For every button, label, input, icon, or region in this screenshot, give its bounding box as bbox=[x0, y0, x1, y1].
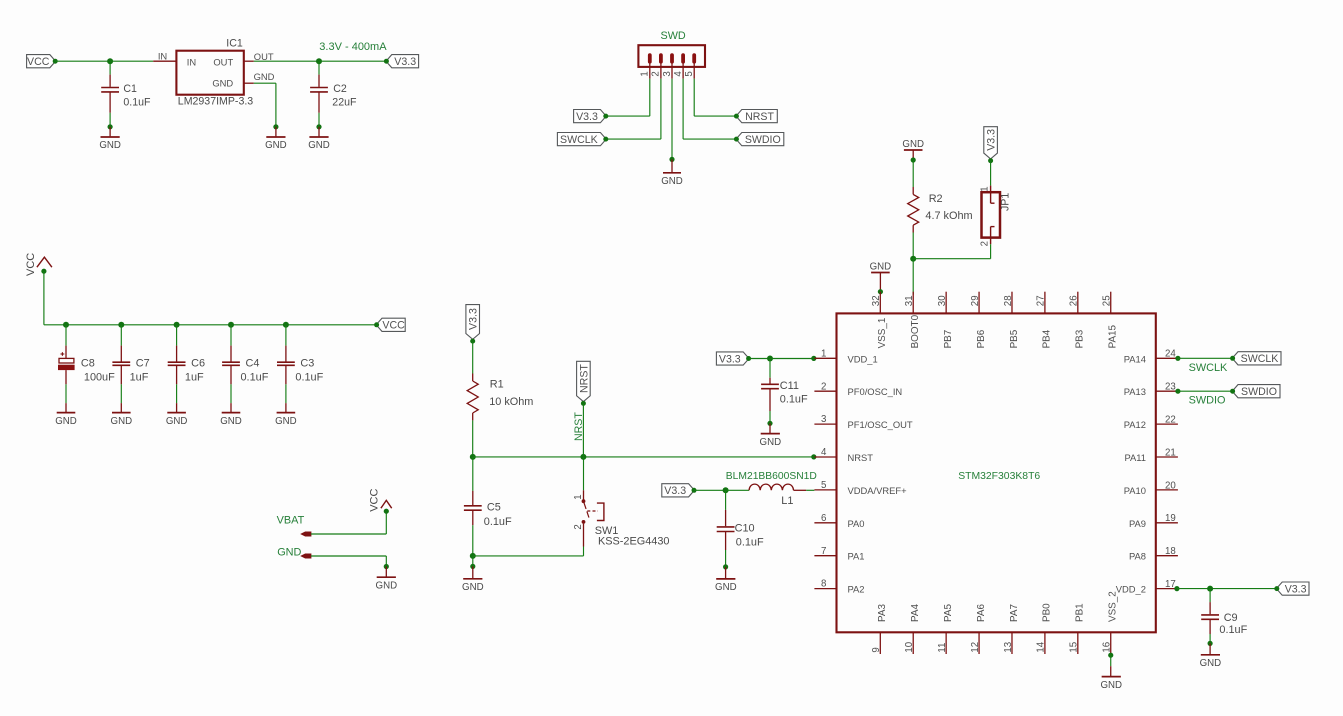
svg-text:32: 32 bbox=[871, 295, 882, 306]
svg-text:GND: GND bbox=[212, 77, 233, 88]
wire bbox=[749, 358, 770, 360]
svg-text:OUT: OUT bbox=[254, 51, 274, 62]
net flag V3.3 bbox=[1274, 582, 1309, 595]
wire bbox=[110, 60, 153, 62]
svg-text:16: 16 bbox=[1102, 642, 1113, 653]
wire pin2 to SWCLK bbox=[660, 64, 662, 79]
svg-text:VBAT: VBAT bbox=[277, 515, 305, 527]
svg-text:21: 21 bbox=[1165, 447, 1176, 458]
svg-text:31: 31 bbox=[904, 295, 915, 306]
svg-text:10 kOhm: 10 kOhm bbox=[489, 396, 533, 408]
wire VDD_2 to V3.3 bbox=[1177, 588, 1277, 590]
junction bbox=[108, 124, 113, 129]
capacitor C1 bbox=[101, 61, 151, 113]
wire SWCLK bbox=[1178, 357, 1232, 359]
pin 1 VDD_1 bbox=[814, 348, 877, 364]
svg-text:PF0/OSC_IN: PF0/OSC_IN bbox=[848, 386, 903, 397]
ground bbox=[760, 423, 782, 448]
svg-text:3: 3 bbox=[662, 71, 673, 76]
svg-text:23: 23 bbox=[1165, 382, 1176, 393]
svg-text:PA4: PA4 bbox=[910, 604, 921, 622]
svg-text:VCC: VCC bbox=[369, 489, 381, 512]
svg-text:R1: R1 bbox=[490, 379, 504, 391]
pin 27 PB4 bbox=[1036, 292, 1053, 349]
ground bbox=[715, 567, 737, 593]
svg-text:C10: C10 bbox=[735, 523, 755, 535]
ground bbox=[1100, 666, 1122, 691]
junction bbox=[174, 322, 180, 328]
svg-text:SWCLK: SWCLK bbox=[560, 134, 598, 146]
resistor R1 10 kOhm bbox=[467, 374, 533, 421]
pin 32 VSS_1 bbox=[871, 292, 888, 349]
svg-text:PA10: PA10 bbox=[1124, 485, 1146, 496]
ground bbox=[220, 403, 242, 427]
svg-text:PB3: PB3 bbox=[1075, 329, 1086, 348]
svg-text:PB7: PB7 bbox=[943, 330, 954, 349]
svg-text:PF1/OSC_OUT: PF1/OSC_OUT bbox=[848, 419, 913, 430]
capacitor C9 bbox=[1201, 589, 1247, 636]
junction bbox=[910, 256, 916, 262]
svg-text:GND: GND bbox=[166, 416, 188, 427]
connector SWD bbox=[638, 30, 705, 67]
svg-text:22uF: 22uF bbox=[332, 97, 357, 109]
svg-text:GND: GND bbox=[55, 416, 77, 427]
svg-text:2: 2 bbox=[821, 381, 826, 392]
pin numbers 1-5 bbox=[640, 71, 695, 77]
pin 23 PA13 bbox=[1124, 382, 1178, 398]
svg-text:15: 15 bbox=[1069, 642, 1080, 653]
svg-text:7: 7 bbox=[821, 546, 826, 557]
svg-text:OUT: OUT bbox=[213, 56, 233, 67]
pin 11 PA5 bbox=[937, 604, 954, 654]
svg-text:PB5: PB5 bbox=[1009, 329, 1020, 348]
svg-text:9: 9 bbox=[871, 647, 882, 652]
switch SW1 KSS-2EG4430 bbox=[573, 457, 670, 556]
svg-text:C8: C8 bbox=[81, 357, 95, 369]
ground bbox=[265, 127, 287, 151]
svg-text:GND: GND bbox=[661, 176, 683, 187]
wire bbox=[230, 384, 232, 403]
svg-text:4.7 kOhm: 4.7 kOhm bbox=[925, 210, 972, 222]
svg-text:13: 13 bbox=[1003, 642, 1014, 653]
junction bbox=[316, 124, 321, 129]
pin 10 PA4 bbox=[904, 604, 921, 654]
jumper JP1 bbox=[979, 186, 1011, 247]
svg-text:GND: GND bbox=[254, 71, 275, 82]
svg-text:VDD_2: VDD_2 bbox=[1116, 584, 1146, 595]
junction bbox=[767, 356, 773, 362]
svg-text:PB0: PB0 bbox=[1042, 603, 1053, 622]
pad VBAT bbox=[300, 532, 311, 537]
svg-text:6: 6 bbox=[821, 513, 826, 524]
svg-text:VSS_1: VSS_1 bbox=[877, 317, 888, 348]
junction bbox=[1207, 586, 1213, 592]
junction bbox=[470, 454, 476, 460]
capacitor C4 bbox=[222, 325, 269, 385]
wire pin4 to SWDIO bbox=[682, 64, 684, 79]
wire VSS_2 to GND bbox=[1108, 653, 1113, 658]
svg-text:1: 1 bbox=[640, 71, 651, 76]
wire bbox=[472, 556, 474, 567]
wire bbox=[990, 244, 992, 259]
net flag SWDIO bbox=[734, 133, 784, 146]
svg-text:PA13: PA13 bbox=[1124, 386, 1146, 397]
junction bbox=[470, 564, 475, 569]
svg-text:0.1uF: 0.1uF bbox=[241, 372, 269, 384]
junction bbox=[63, 322, 69, 328]
svg-text:GND: GND bbox=[870, 261, 892, 272]
svg-text:3: 3 bbox=[821, 414, 826, 425]
net flag V3.3 bbox=[716, 352, 751, 365]
svg-text:GND: GND bbox=[462, 582, 484, 593]
junction bbox=[283, 322, 289, 328]
svg-text:V3.3: V3.3 bbox=[1285, 583, 1307, 595]
wire bbox=[311, 533, 386, 535]
svg-text:12: 12 bbox=[970, 642, 981, 653]
pin 4 NRST bbox=[814, 447, 873, 463]
wire NRST net bbox=[473, 456, 815, 458]
svg-text:19: 19 bbox=[1165, 513, 1176, 524]
net flag SWCLK bbox=[1230, 352, 1281, 365]
ground bbox=[661, 159, 683, 187]
microcontroller IC STM32F303K8T6 bbox=[837, 313, 1156, 632]
svg-text:0.1uF: 0.1uF bbox=[295, 372, 323, 384]
junction bbox=[1208, 641, 1213, 646]
svg-text:IN: IN bbox=[158, 51, 167, 62]
svg-text:30: 30 bbox=[937, 295, 948, 306]
svg-text:20: 20 bbox=[1165, 480, 1176, 491]
svg-text:PA1: PA1 bbox=[848, 551, 865, 562]
junction bbox=[878, 289, 883, 294]
junction bbox=[316, 58, 322, 64]
svg-text:SWCLK: SWCLK bbox=[1241, 353, 1279, 365]
wire bbox=[694, 489, 725, 491]
ground bbox=[376, 567, 398, 592]
svg-text:100uF: 100uF bbox=[84, 372, 115, 384]
junction bbox=[911, 157, 916, 162]
svg-text:SWDIO: SWDIO bbox=[1241, 386, 1277, 398]
wire bbox=[769, 411, 771, 423]
wire bbox=[1209, 634, 1211, 643]
junction bbox=[767, 421, 772, 426]
svg-text:24: 24 bbox=[1165, 349, 1176, 360]
junction bbox=[669, 157, 674, 162]
svg-text:GND: GND bbox=[902, 139, 924, 150]
pin 28 PB5 bbox=[1003, 292, 1020, 349]
svg-text:1: 1 bbox=[573, 494, 584, 499]
svg-text:4: 4 bbox=[821, 447, 827, 458]
supply VCC bbox=[25, 253, 52, 276]
pin 6 PA0 bbox=[814, 513, 864, 529]
junction bbox=[723, 487, 729, 493]
junction bbox=[118, 322, 124, 328]
junction bbox=[1175, 389, 1180, 394]
svg-text:VCC: VCC bbox=[382, 320, 405, 332]
svg-text:LM2937IMP-3.3: LM2937IMP-3.3 bbox=[178, 95, 253, 107]
voltage regulator IC1 LM2937IMP-3.3 bbox=[153, 38, 274, 108]
wire bbox=[912, 160, 914, 187]
svg-text:0.1uF: 0.1uF bbox=[484, 516, 512, 528]
wire bbox=[472, 420, 474, 457]
junction bbox=[1174, 586, 1179, 591]
wire bbox=[176, 384, 178, 403]
svg-text:VDD_1: VDD_1 bbox=[848, 353, 878, 364]
wire VCC rail bbox=[43, 271, 45, 325]
svg-text:1uF: 1uF bbox=[185, 372, 204, 384]
svg-text:R2: R2 bbox=[929, 193, 943, 205]
net flag SWDIO bbox=[1230, 385, 1280, 398]
svg-text:V3.3: V3.3 bbox=[394, 56, 416, 68]
svg-text:C2: C2 bbox=[333, 83, 347, 95]
svg-text:PA14: PA14 bbox=[1124, 353, 1146, 364]
pin 26 PB3 bbox=[1069, 292, 1086, 349]
svg-text:KSS-2EG4430: KSS-2EG4430 bbox=[598, 535, 669, 547]
svg-text:IC1: IC1 bbox=[226, 38, 243, 50]
svg-text:PA9: PA9 bbox=[1129, 518, 1146, 529]
svg-text:GND: GND bbox=[760, 437, 782, 448]
svg-text:0.1uF: 0.1uF bbox=[1219, 624, 1247, 636]
svg-text:C6: C6 bbox=[191, 357, 205, 369]
svg-text:PA3: PA3 bbox=[877, 604, 888, 622]
ground bbox=[111, 403, 133, 427]
svg-text:26: 26 bbox=[1069, 295, 1080, 306]
pin 3 PF1/OSC_OUT bbox=[814, 414, 912, 430]
net flag VCC bbox=[27, 55, 58, 68]
pin 9 PA3 bbox=[871, 604, 888, 654]
svg-text:25: 25 bbox=[1102, 295, 1113, 306]
svg-text:C9: C9 bbox=[1224, 612, 1238, 624]
svg-text:PA2: PA2 bbox=[848, 584, 865, 595]
svg-text:V3.3: V3.3 bbox=[576, 111, 598, 123]
svg-text:3.3V - 400mA: 3.3V - 400mA bbox=[319, 41, 387, 53]
pin 14 PB0 bbox=[1036, 603, 1053, 654]
ground bbox=[166, 403, 188, 427]
pin 30 PB7 bbox=[937, 292, 954, 349]
capacitor C10 bbox=[717, 490, 764, 550]
svg-text:14: 14 bbox=[1036, 641, 1047, 652]
ground (above R2) bbox=[902, 139, 924, 158]
wire bbox=[725, 550, 727, 567]
svg-text:PA11: PA11 bbox=[1124, 452, 1146, 463]
pin 12 PA6 bbox=[970, 604, 987, 654]
ground (pin 32) bbox=[870, 261, 892, 290]
wire bbox=[472, 525, 474, 556]
svg-text:PB1: PB1 bbox=[1075, 603, 1086, 622]
svg-text:11: 11 bbox=[937, 643, 948, 653]
svg-text:VCC: VCC bbox=[25, 253, 37, 276]
junction bbox=[273, 124, 278, 129]
svg-text:IN: IN bbox=[187, 56, 196, 67]
wire bbox=[120, 384, 122, 403]
net flag SWCLK bbox=[557, 133, 608, 146]
wire bbox=[56, 60, 111, 62]
net flag V3.3 (vertical) bbox=[984, 127, 998, 164]
svg-text:VDDA/VREF+: VDDA/VREF+ bbox=[848, 485, 908, 496]
wire bbox=[254, 82, 276, 84]
pin 19 PA9 bbox=[1129, 513, 1178, 529]
svg-text:5: 5 bbox=[684, 71, 695, 76]
wire bbox=[472, 342, 474, 374]
svg-text:V3.3: V3.3 bbox=[719, 353, 741, 365]
ground bbox=[308, 127, 330, 151]
wire bbox=[318, 113, 320, 127]
svg-text:4: 4 bbox=[673, 71, 684, 77]
svg-text:10: 10 bbox=[904, 641, 915, 652]
svg-text:L1: L1 bbox=[781, 495, 793, 507]
svg-text:GND: GND bbox=[99, 140, 121, 151]
svg-text:0.1uF: 0.1uF bbox=[123, 97, 151, 109]
junction bbox=[107, 58, 113, 64]
wire pin5 to NRST bbox=[693, 64, 695, 79]
svg-text:VSS_2: VSS_2 bbox=[1108, 591, 1119, 622]
net flag NRST bbox=[734, 110, 777, 123]
svg-text:GND: GND bbox=[220, 416, 242, 427]
svg-text:PA7: PA7 bbox=[1009, 604, 1020, 622]
svg-text:C11: C11 bbox=[780, 380, 799, 392]
pin 5 VDDA/VREF+ bbox=[814, 480, 907, 496]
wire bbox=[912, 259, 914, 295]
svg-text:JP1: JP1 bbox=[1000, 193, 1012, 211]
ground bbox=[275, 403, 297, 427]
svg-text:GND: GND bbox=[275, 416, 297, 427]
pin 17 VDD_2 bbox=[1116, 579, 1178, 595]
pin 18 PA8 bbox=[1129, 546, 1178, 562]
ground bbox=[462, 566, 484, 593]
capacitor C3 bbox=[277, 325, 324, 385]
wire bbox=[582, 404, 584, 457]
capacitor C6 bbox=[168, 325, 205, 385]
svg-text:2: 2 bbox=[979, 241, 990, 246]
svg-text:0.1uF: 0.1uF bbox=[736, 537, 764, 549]
pin 29 PB6 bbox=[970, 292, 987, 349]
svg-text:C5: C5 bbox=[487, 501, 501, 513]
svg-text:22: 22 bbox=[1165, 415, 1176, 426]
net flag V3.3 bbox=[574, 110, 609, 123]
svg-text:C3: C3 bbox=[300, 357, 314, 369]
pin 16 VSS_2 bbox=[1102, 591, 1119, 654]
svg-text:GND: GND bbox=[1200, 658, 1222, 669]
pin 31 BOOT0 bbox=[904, 292, 921, 349]
pin 24 PA14 bbox=[1124, 349, 1178, 365]
junction bbox=[723, 564, 728, 569]
svg-text:C7: C7 bbox=[136, 357, 150, 369]
wire bbox=[109, 113, 111, 127]
svg-text:GND: GND bbox=[308, 140, 330, 151]
svg-text:29: 29 bbox=[970, 295, 981, 306]
ground bbox=[99, 127, 121, 151]
svg-text:28: 28 bbox=[1003, 295, 1014, 306]
svg-text:NRST: NRST bbox=[848, 452, 874, 463]
svg-text:PB6: PB6 bbox=[976, 329, 987, 348]
junction bbox=[228, 322, 234, 328]
svg-text:BLM21BB600SN1D: BLM21BB600SN1D bbox=[726, 471, 817, 482]
svg-text:PA6: PA6 bbox=[976, 604, 987, 622]
svg-text:V3.3: V3.3 bbox=[468, 308, 480, 330]
net flag V3.3 (vertical) bbox=[466, 305, 480, 344]
pin 25 PA15 bbox=[1102, 292, 1119, 349]
wire bbox=[254, 60, 319, 62]
svg-text:2: 2 bbox=[573, 524, 584, 529]
net flag NRST (vertical) bbox=[577, 361, 591, 406]
svg-text:NRST: NRST bbox=[578, 364, 590, 393]
svg-text:GND: GND bbox=[265, 140, 287, 151]
supply VCC bbox=[369, 489, 392, 514]
svg-text:V3.3: V3.3 bbox=[986, 129, 998, 151]
svg-text:18: 18 bbox=[1165, 546, 1176, 557]
wire bbox=[990, 160, 992, 185]
net flag V3.3 bbox=[662, 484, 697, 497]
net flag V3.3 bbox=[384, 55, 419, 68]
wire pin3 to GND bbox=[671, 64, 673, 79]
ground bbox=[55, 403, 77, 427]
pin 2 PF0/OSC_IN bbox=[814, 381, 902, 397]
svg-text:5: 5 bbox=[821, 480, 826, 491]
pin 13 PA7 bbox=[1003, 604, 1020, 654]
capacitor C11 bbox=[761, 359, 808, 412]
svg-text:PB4: PB4 bbox=[1042, 329, 1053, 348]
svg-text:NRST: NRST bbox=[745, 111, 774, 123]
svg-text:0.1uF: 0.1uF bbox=[780, 394, 808, 406]
svg-text:SWDIO: SWDIO bbox=[745, 134, 781, 146]
svg-text:GND: GND bbox=[111, 416, 133, 427]
svg-text:SWCLK: SWCLK bbox=[1189, 362, 1228, 374]
pin 22 PA12 bbox=[1124, 415, 1178, 431]
svg-text:PA12: PA12 bbox=[1124, 419, 1146, 430]
junction bbox=[384, 564, 389, 569]
wire bbox=[65, 384, 67, 403]
svg-text:BOOT0: BOOT0 bbox=[910, 314, 921, 348]
svg-text:PA8: PA8 bbox=[1129, 551, 1146, 562]
wire bbox=[319, 60, 385, 62]
pin 21 PA11 bbox=[1124, 447, 1177, 463]
svg-text:C1: C1 bbox=[123, 83, 137, 95]
svg-text:PA15: PA15 bbox=[1108, 324, 1119, 348]
svg-text:GND: GND bbox=[1100, 680, 1122, 691]
wire pin1 to V3.3 bbox=[649, 64, 651, 79]
svg-text:GND: GND bbox=[715, 582, 737, 593]
net flag VCC bbox=[374, 318, 405, 331]
junction bbox=[580, 454, 586, 460]
svg-text:17: 17 bbox=[1165, 579, 1176, 590]
junction bbox=[811, 454, 816, 459]
svg-text:STM32F303K8T6: STM32F303K8T6 bbox=[958, 471, 1040, 482]
svg-text:27: 27 bbox=[1036, 295, 1047, 306]
svg-text:NRST: NRST bbox=[573, 412, 585, 441]
capacitor C2 bbox=[310, 61, 357, 113]
svg-text:SWD: SWD bbox=[661, 30, 686, 42]
svg-text:1: 1 bbox=[821, 348, 826, 359]
junction bbox=[811, 356, 816, 361]
pin 8 PA2 bbox=[814, 579, 864, 595]
pin 7 PA1 bbox=[814, 546, 864, 562]
wire bbox=[770, 358, 814, 360]
wire bbox=[311, 555, 386, 557]
svg-text:SWDIO: SWDIO bbox=[1189, 395, 1226, 407]
capacitor C7 bbox=[112, 325, 149, 385]
inductor L1 BLM21BB600SN1D bbox=[726, 471, 817, 507]
pin 15 PB1 bbox=[1069, 603, 1086, 654]
wire bbox=[912, 233, 914, 259]
svg-text:8: 8 bbox=[821, 579, 826, 590]
svg-text:C4: C4 bbox=[246, 357, 260, 369]
svg-text:GND: GND bbox=[376, 580, 398, 591]
wire SWDIO bbox=[1178, 390, 1232, 392]
svg-text:1uF: 1uF bbox=[130, 372, 149, 384]
wire bbox=[285, 384, 287, 403]
svg-text:1: 1 bbox=[980, 186, 991, 191]
pad GND bbox=[300, 554, 311, 559]
resistor R2 4.7 kOhm bbox=[908, 187, 973, 233]
